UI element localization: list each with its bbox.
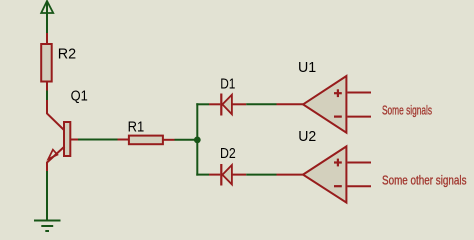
wire D2 to U2 (246, 174, 276, 176)
svg-text:Some signals: Some signals (382, 102, 432, 117)
wire node vertical (196, 103, 198, 175)
diode D1 (221, 94, 232, 116)
svg-text:R1: R1 (128, 119, 145, 136)
U2 input pin - (347, 185, 371, 187)
svg-text:Some other signals: Some other signals (382, 173, 467, 188)
wire Q1 emitter to ground (46, 171, 48, 220)
resistor R1 (129, 136, 163, 145)
ground (34, 221, 61, 232)
op-amp U2 (303, 146, 346, 202)
wire node to D1 (196, 103, 209, 105)
wire R1 right pin (164, 139, 175, 141)
transistor Q1 (47, 100, 78, 172)
wire U2 output pin (277, 174, 304, 176)
node junction (194, 137, 201, 144)
svg-text:U2: U2 (298, 128, 316, 145)
wire R2 to Q1 (46, 91, 48, 101)
power symbol VCC arrow (41, 1, 53, 33)
U1 plus sign (334, 89, 342, 97)
U1 input pin + (347, 92, 371, 94)
svg-text:U1: U1 (298, 59, 316, 76)
svg-text:Q1: Q1 (71, 88, 88, 105)
wire node to D2 (196, 174, 209, 176)
svg-text:R2: R2 (58, 45, 76, 62)
op-amp U1 (303, 76, 346, 133)
wire R1 left pin (118, 139, 129, 141)
wire D2 cathode pin (232, 174, 246, 176)
U1 input pin - (347, 116, 371, 118)
wire U1 output pin (277, 103, 304, 105)
U2 input pin + (347, 162, 371, 164)
diode D2 (221, 164, 232, 186)
wire R1 to node (175, 139, 198, 141)
wire R2 bottom pin (46, 82, 48, 91)
wire D1 to U1 (246, 103, 276, 105)
U1 minus sign (334, 115, 342, 117)
U2 plus sign (334, 159, 342, 167)
wire Q1 base to R1 (78, 139, 118, 141)
wire D1 anode pin (209, 103, 220, 105)
wire D1 cathode pin (232, 103, 246, 105)
svg-text:D2: D2 (220, 145, 236, 162)
wire D2 anode pin (209, 174, 220, 176)
svg-text:D1: D1 (220, 76, 235, 93)
wire R2 top pin (46, 33, 48, 44)
resistor R2 (41, 44, 52, 82)
U2 minus sign (334, 185, 342, 187)
